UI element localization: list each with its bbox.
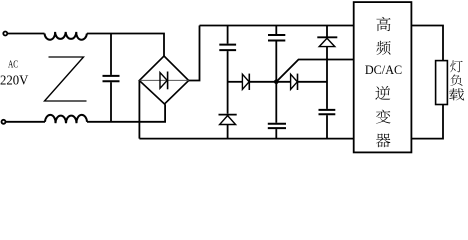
wire: branch 2 bottom stub <box>275 129 277 139</box>
diode D4 (cathode up) <box>219 115 237 125</box>
text 灯 <box>450 60 463 72</box>
bridge rectifier U1 (diamond) <box>139 56 188 104</box>
text 变 <box>376 110 391 124</box>
wire: branch 1 bottom stub <box>227 125 229 139</box>
wire: branch 1 middle <box>227 51 229 114</box>
wire: branch 3 middle <box>326 47 328 109</box>
svg-text:AC: AC <box>8 60 18 71</box>
svg-text:DC/AC: DC/AC <box>365 63 402 77</box>
terminal: AC input top <box>3 32 7 36</box>
wire: branch 2 top stub <box>275 26 277 35</box>
diode D3 (cathode up) <box>317 37 337 46</box>
diode D1 (pointing right) <box>242 74 249 90</box>
wire: mid band segment c <box>298 81 328 83</box>
wire: lamp bottom return to inverter <box>411 105 443 139</box>
text 频 <box>376 41 390 55</box>
text 逆 <box>375 86 390 100</box>
terminal: AC input bottom <box>2 120 6 124</box>
inductor L2 (bottom line filter choke) <box>45 115 87 123</box>
wire: DC+ top rail <box>200 25 354 27</box>
wire: top AC rail to bridge top corner <box>87 34 164 57</box>
text 载 <box>449 88 464 100</box>
wire: diagonal from junction to gate line into inverter <box>276 60 353 82</box>
wire: bridge positive (right corner) up to DC+ rail <box>189 26 200 81</box>
block U2: high-frequency DC/AC inverter <box>354 2 412 152</box>
text 负 <box>450 74 462 85</box>
bridge diode symbol <box>160 72 168 90</box>
text 器 <box>376 133 391 147</box>
wire: mid band segment a <box>228 81 243 83</box>
diode D2 (pointing right) <box>291 74 298 90</box>
capacitor C3 <box>268 35 285 41</box>
wire: top AC terminal to filter inductor <box>8 33 45 35</box>
capacitor C5 <box>319 110 336 114</box>
resistor R1: lamp load <box>436 61 448 105</box>
capacitor C4 <box>268 124 286 128</box>
junction node <box>274 80 279 85</box>
impedance symbol Z (between chokes) <box>45 57 87 101</box>
wire: bottom AC terminal to filter inductor <box>6 121 45 123</box>
wire: bottom AC rail to bridge bottom corner riser <box>87 104 165 122</box>
wire: branch 3 bottom stub <box>326 115 328 138</box>
wire: branch 1 top stub <box>227 26 229 44</box>
wire: branch 3 top stub <box>326 26 328 38</box>
capacitor C1 (across AC line) <box>103 34 120 122</box>
inductor L1 (top line filter choke) <box>45 32 87 40</box>
wire: mid band segment b <box>249 81 290 83</box>
text 高 <box>376 17 390 31</box>
wire: bridge negative (left corner) down to DC- rail <box>138 81 140 139</box>
capacitor C2 <box>219 45 236 51</box>
wire: inverter output top to lamp <box>411 26 443 61</box>
bridge centerline <box>139 79 188 81</box>
svg-text:220V: 220V <box>0 73 28 88</box>
wire: DC- bottom rail <box>139 138 353 140</box>
wire: branch 2 middle <box>275 42 277 123</box>
